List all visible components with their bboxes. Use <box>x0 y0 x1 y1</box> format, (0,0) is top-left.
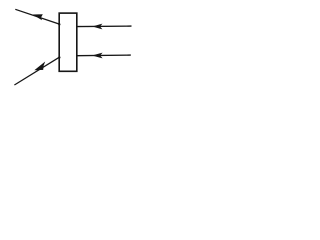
node: junction dot upper left edge <box>58 23 60 25</box>
wire: upper incoming ray (right side) <box>77 25 132 28</box>
arrowhead on upper outgoing ray (points up-left) <box>33 14 43 20</box>
arrowhead on upper incoming ray (points left) <box>92 24 102 30</box>
arrowhead on lower outgoing ray (points down-left, tilted above line) <box>34 62 45 71</box>
arrowhead on lower incoming ray (points left) <box>92 53 103 59</box>
component box (slab) <box>59 13 77 71</box>
wire: upper outgoing ray (to upper left) <box>15 9 59 24</box>
wire: lower outgoing ray (to lower left) <box>14 57 59 85</box>
node: junction dot lower left edge <box>58 56 60 58</box>
wire: lower incoming ray (right side) <box>77 54 131 57</box>
